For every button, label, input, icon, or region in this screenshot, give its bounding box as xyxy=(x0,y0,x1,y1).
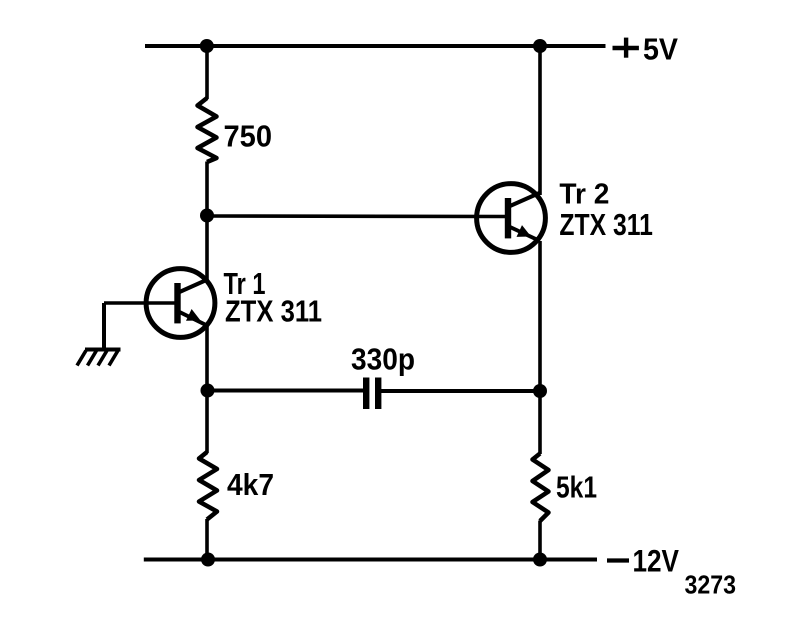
wire left vertical from Tr1 emitter to cap node xyxy=(205,324,209,391)
node top-left junction xyxy=(200,39,214,53)
wire right vertical from top rail to Tr2 collector xyxy=(538,46,542,195)
wire top +5V rail xyxy=(145,44,606,48)
wire 5k1 to bottom rail xyxy=(538,521,542,560)
svg-text:5k1: 5k1 xyxy=(556,470,597,505)
svg-text:4k7: 4k7 xyxy=(227,467,274,502)
wire left vertical from resistor 750 to Tr1 collector xyxy=(205,162,209,281)
wire Tr1 base xyxy=(104,301,176,305)
svg-text:ZTX 311: ZTX 311 xyxy=(225,293,322,328)
resistor 750 xyxy=(198,98,217,162)
svg-text:ZTX 311: ZTX 311 xyxy=(559,207,653,242)
wire left vertical from top rail to resistor 750 xyxy=(205,46,209,99)
wire bottom -12V rail xyxy=(144,558,597,562)
svg-text:Tr 2: Tr 2 xyxy=(559,178,609,210)
transistor Tr2 xyxy=(477,184,546,253)
node bottom-left junction xyxy=(201,553,215,567)
wire ground drop xyxy=(102,303,106,349)
resistor 5k1 xyxy=(533,454,549,522)
wire from cap node to resistor 4k7 is same vertical xyxy=(205,391,209,453)
node capacitor-right junction xyxy=(533,384,547,398)
+5V plus sign xyxy=(613,38,639,58)
capacitor 330p xyxy=(363,378,381,410)
node Tr2 base junction xyxy=(200,209,214,223)
svg-text:330p: 330p xyxy=(351,341,415,376)
wire capacitor right xyxy=(381,389,541,393)
svg-text:3273: 3273 xyxy=(685,570,737,600)
wire 4k7 to bottom rail xyxy=(205,519,209,560)
node capacitor-left junction xyxy=(201,384,215,398)
node top-right junction xyxy=(533,39,547,53)
svg-text:12V: 12V xyxy=(633,543,680,579)
svg-text:5V: 5V xyxy=(643,31,678,66)
ground xyxy=(77,350,121,366)
resistor 4k7 xyxy=(199,452,217,520)
wire capacitor left xyxy=(207,389,364,393)
svg-text:750: 750 xyxy=(224,118,273,153)
transistor Tr1 xyxy=(146,269,215,338)
wire right vertical from Tr2 emitter to node xyxy=(538,241,542,454)
-12V minus sign xyxy=(607,558,629,562)
node bottom-right junction xyxy=(533,553,547,567)
wire base of Tr2 xyxy=(207,214,507,218)
